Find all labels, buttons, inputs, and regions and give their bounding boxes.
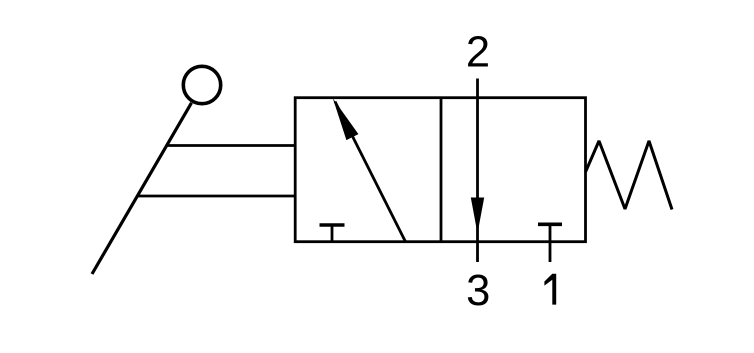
lever knob circle (183, 66, 220, 103)
port 2 line (476, 79, 479, 263)
upper push rod wire (167, 144, 297, 147)
flow path arrowhead (333, 98, 359, 140)
down arrowhead (471, 198, 484, 234)
valve body box (295, 98, 585, 242)
label 1 (544, 274, 556, 305)
blocked port T left (320, 225, 345, 242)
center divider (440, 98, 443, 242)
svg-text:2: 2 (466, 29, 490, 77)
port 1 T (538, 224, 562, 262)
flow path arrow shaft (335, 102, 406, 242)
svg-text:3: 3 (466, 267, 490, 315)
lower push rod wire (137, 195, 296, 198)
spring (586, 141, 673, 210)
lever arm diagonal (92, 103, 192, 274)
